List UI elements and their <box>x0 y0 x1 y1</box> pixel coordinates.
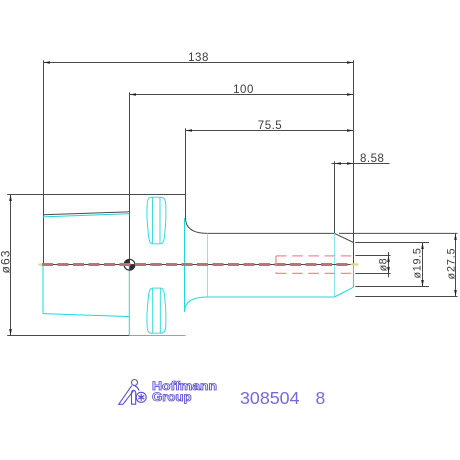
logo mark: gear star <box>138 394 144 401</box>
fillet lower <box>185 297 208 312</box>
part fillet upper <box>186 218 208 233</box>
svg-text:ø63: ø63 <box>0 250 13 274</box>
dimension 75.5 line <box>186 128 354 218</box>
Hoffmann Group logo mark: head <box>119 380 147 405</box>
Hoffmann Group logo text <box>152 379 217 404</box>
nut bottom slant <box>43 314 130 317</box>
svg-text:ø27.5: ø27.5 <box>445 247 457 279</box>
centerline yellow lead-in left <box>39 263 44 265</box>
part nut top slant (dark) <box>44 212 354 265</box>
part shaft top edge <box>208 232 335 234</box>
svg-text:308504: 308504 <box>240 388 300 408</box>
dimension 138 line <box>44 60 354 264</box>
bottom edge big section <box>129 335 185 337</box>
svg-text:ø8: ø8 <box>378 258 390 271</box>
dimension 8.58 arrows <box>335 162 342 165</box>
logo mark: gear circle <box>136 392 146 402</box>
step2 face <box>184 218 186 312</box>
dimension 8.58 line <box>332 161 390 233</box>
tangent line at fillet (pale cyan) <box>208 233 335 297</box>
dimension dia27.5 lines <box>339 233 458 296</box>
logo mark: boot column <box>132 390 136 404</box>
dimension dia8 lines <box>355 252 390 277</box>
dimension dia8 arrows <box>387 256 390 263</box>
bore hidden bottom line <box>276 272 354 274</box>
part chamfer top <box>335 233 354 242</box>
svg-text:ø19.5: ø19.5 <box>411 247 423 278</box>
bore hidden top line (pink dashed) <box>276 256 354 274</box>
part lower outline (cyan) <box>43 214 354 336</box>
dimension 100 arrows <box>130 93 137 96</box>
dimension dia63 arrows <box>9 195 12 202</box>
center of mass marker <box>124 259 135 270</box>
dimension 100 line <box>130 92 354 264</box>
logo mark: hollow leg triangle <box>119 386 135 405</box>
centerline thin dark <box>40 264 354 266</box>
dimension dia19.5 arrows <box>421 243 424 250</box>
tangent line at chamfer (pale cyan) <box>334 233 336 297</box>
nut upper slant cyan <box>43 214 130 217</box>
slot upper (cyan) <box>147 197 166 244</box>
dimension dia63 line and extension lines <box>7 195 185 336</box>
svg-text:100: 100 <box>233 84 254 96</box>
shaft bottom edge <box>208 296 335 298</box>
right face lower <box>353 265 355 288</box>
svg-text:8: 8 <box>316 388 326 408</box>
part right face upper <box>353 243 355 265</box>
dimension dia27.5 arrows <box>454 233 457 240</box>
slot lower (cyan) <box>147 288 166 333</box>
dimension 75.5 arrows <box>186 129 193 132</box>
dimension 138 arrows <box>44 61 51 64</box>
svg-text:138: 138 <box>188 52 209 64</box>
dimension dia19.5 lines <box>355 243 429 287</box>
bore hidden end line <box>275 256 277 274</box>
logo mark: arm to gear <box>134 385 140 390</box>
svg-text:8.58: 8.58 <box>360 153 384 165</box>
centerline red dashes <box>42 263 350 266</box>
chamfer bottom <box>335 287 354 297</box>
centerline yellow lead-out right <box>351 263 359 265</box>
svg-text:Group: Group <box>152 390 192 404</box>
nut face lower <box>42 265 44 314</box>
svg-text:75.5: 75.5 <box>258 120 282 132</box>
step lower <box>128 265 130 336</box>
